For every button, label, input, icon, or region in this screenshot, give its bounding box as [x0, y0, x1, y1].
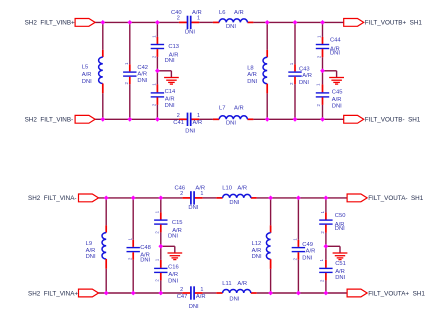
svg-text:FILT_VOUTB+ SH1: FILT_VOUTB+ SH1: [365, 20, 423, 27]
svg-text:C48: C48: [140, 245, 151, 251]
svg-text:L10: L10: [222, 185, 232, 191]
svg-text:L7: L7: [219, 105, 225, 111]
svg-text:DNI: DNI: [335, 275, 345, 281]
svg-text:A/R: A/R: [165, 97, 175, 103]
svg-text:C41: C41: [173, 120, 184, 126]
svg-text:2: 2: [177, 113, 180, 119]
svg-text:C44: C44: [330, 38, 341, 44]
svg-text:A/R: A/R: [237, 281, 247, 287]
svg-text:DNI: DNI: [82, 79, 92, 85]
svg-text:C50: C50: [335, 213, 346, 219]
svg-text:1: 1: [197, 15, 200, 21]
svg-text:SH2 FILT_VINA-: SH2 FILT_VINA-: [28, 195, 77, 202]
svg-text:A/R: A/R: [234, 10, 244, 16]
svg-text:L9: L9: [86, 241, 92, 247]
svg-text:C14: C14: [165, 89, 176, 95]
svg-text:DNI: DNI: [302, 256, 312, 262]
svg-text:A/R: A/R: [234, 105, 244, 111]
svg-text:2: 2: [177, 15, 180, 21]
svg-text:A/R: A/R: [306, 249, 316, 255]
svg-text:DNI: DNI: [226, 120, 236, 126]
svg-text:DNI: DNI: [185, 30, 195, 36]
svg-text:DNI: DNI: [252, 254, 262, 260]
svg-text:A/R: A/R: [168, 272, 178, 278]
svg-text:A/R: A/R: [302, 73, 312, 79]
svg-text:SH2 FILT_VINA+: SH2 FILT_VINA+: [28, 290, 78, 297]
svg-text:FILT_VOUTB- SH1: FILT_VOUTB- SH1: [365, 117, 421, 124]
svg-text:1: 1: [200, 287, 203, 293]
svg-text:DNI: DNI: [189, 304, 199, 310]
svg-text:DNI: DNI: [86, 254, 96, 260]
svg-text:DNI: DNI: [332, 104, 342, 110]
svg-text:DNI: DNI: [188, 205, 198, 211]
svg-text:DNI: DNI: [140, 258, 150, 264]
svg-text:A/R: A/R: [196, 294, 206, 300]
svg-text:A/R: A/R: [332, 97, 342, 103]
svg-text:C51: C51: [335, 261, 346, 267]
svg-text:C16: C16: [168, 264, 179, 270]
svg-text:C15: C15: [172, 220, 183, 226]
svg-text:DNI: DNI: [226, 24, 236, 30]
svg-text:SH2 FILT_VINB-: SH2 FILT_VINB-: [25, 117, 74, 124]
svg-text:A/R: A/R: [82, 72, 92, 78]
svg-text:DNI: DNI: [247, 79, 257, 85]
svg-text:DNI: DNI: [168, 279, 178, 285]
svg-text:C45: C45: [332, 89, 343, 95]
svg-text:A/R: A/R: [193, 120, 203, 126]
svg-text:L12: L12: [252, 241, 262, 247]
svg-text:DNI: DNI: [137, 78, 147, 84]
svg-text:A/R: A/R: [252, 248, 262, 254]
svg-text:C49: C49: [302, 242, 313, 248]
svg-text:C42: C42: [137, 65, 148, 71]
svg-text:FILT_VOUTA- SH1: FILT_VOUTA- SH1: [368, 195, 424, 202]
svg-text:DNI: DNI: [299, 80, 309, 86]
svg-text:L6: L6: [219, 10, 225, 16]
svg-text:A/R: A/R: [137, 71, 147, 77]
svg-text:2: 2: [180, 287, 183, 293]
svg-text:DNI: DNI: [168, 233, 178, 239]
svg-text:C13: C13: [168, 44, 179, 50]
svg-text:A/R: A/R: [86, 248, 96, 254]
svg-text:FILT_VOUTA+ SH1: FILT_VOUTA+ SH1: [368, 290, 425, 297]
svg-text:DNI: DNI: [229, 296, 239, 302]
svg-text:DNI: DNI: [335, 226, 345, 232]
svg-text:C43: C43: [299, 66, 310, 72]
svg-text:A/R: A/R: [237, 185, 247, 191]
svg-text:L11: L11: [222, 281, 231, 287]
svg-text:DNI: DNI: [229, 200, 239, 206]
svg-text:1: 1: [200, 191, 203, 197]
svg-text:L5: L5: [82, 65, 88, 71]
svg-text:DNI: DNI: [330, 51, 340, 57]
svg-text:SH2 FILT_VINB+: SH2 FILT_VINB+: [25, 20, 75, 27]
svg-text:1: 1: [197, 113, 200, 119]
svg-text:L8: L8: [247, 66, 253, 72]
svg-text:2: 2: [180, 191, 183, 197]
svg-text:C47: C47: [177, 294, 188, 300]
svg-text:A/R: A/R: [247, 72, 257, 78]
svg-text:DNI: DNI: [165, 103, 175, 109]
svg-text:DNI: DNI: [185, 129, 195, 135]
svg-text:DNI: DNI: [165, 58, 175, 64]
svg-text:A/R: A/R: [335, 269, 345, 275]
